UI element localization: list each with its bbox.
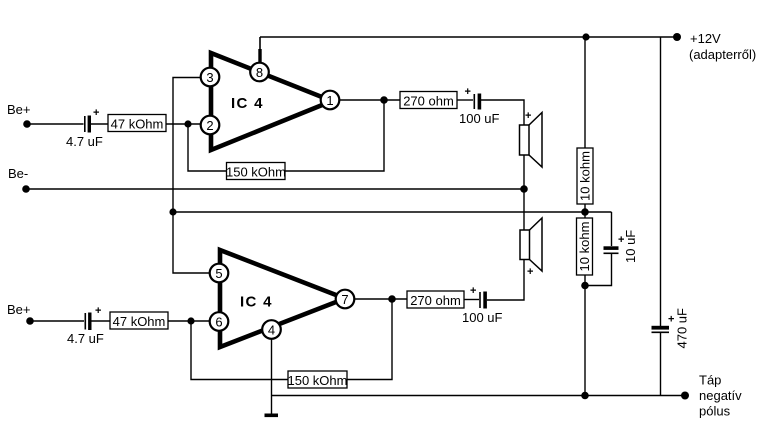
pin 7	[336, 290, 355, 309]
node output 1	[380, 96, 388, 104]
wire C5 branch bottom	[585, 254, 612, 286]
svg-text:4.7 uF: 4.7 uF	[66, 134, 103, 149]
svg-text:470 uF: 470 uF	[675, 308, 690, 349]
wire output 1	[339, 99, 400, 101]
svg-text:Be-: Be-	[8, 166, 28, 181]
node output 2	[388, 295, 396, 303]
svg-text:+: +	[93, 107, 99, 119]
svg-text:+12V: +12V	[690, 31, 721, 46]
svg-text:150 kOhm: 150 kOhm	[288, 373, 348, 388]
svg-text:7: 7	[341, 292, 348, 307]
wire ground bottom rail	[272, 395, 686, 397]
resistor R8 10 kohm	[577, 218, 593, 275]
svg-text:100 uF: 100 uF	[462, 310, 503, 325]
pin 3	[201, 68, 220, 87]
node Be+ terminal 1	[23, 120, 31, 128]
svg-text:270 ohm: 270 ohm	[403, 94, 454, 109]
wire feedback 1 left	[188, 124, 227, 171]
svg-text:1: 1	[326, 93, 333, 108]
wire speaker 1 to Be- node	[523, 155, 525, 189]
svg-text:+: +	[95, 305, 101, 317]
node inverting input 1	[184, 120, 191, 127]
capacitor C5 10uF	[604, 230, 639, 263]
resistor R7 10 kohm	[577, 148, 593, 204]
wire C5 branch top	[611, 212, 613, 246]
capacitor C6 470uF	[652, 308, 690, 349]
svg-text:pólus: pólus	[699, 404, 731, 419]
wire cap to R1	[91, 123, 108, 125]
svg-text:3: 3	[206, 70, 213, 85]
node divider lower junction	[581, 282, 589, 290]
node Be+ terminal 2	[26, 317, 34, 325]
wire feedback 1 right	[285, 100, 384, 171]
svg-text:+: +	[527, 266, 533, 278]
node divider bottom on rail	[581, 392, 589, 400]
svg-text:5: 5	[215, 266, 222, 281]
wire R4 to pin 6	[168, 320, 210, 322]
wire R6 to C4	[464, 299, 479, 301]
svg-text:47 kOhm: 47 kOhm	[113, 314, 166, 329]
svg-text:10 kohm: 10 kohm	[578, 151, 593, 201]
resistor R3 270 ohm	[400, 92, 457, 109]
op-amp U2	[220, 250, 345, 347]
node V+ divider junction	[582, 33, 589, 40]
speaker LS1	[520, 110, 543, 167]
svg-text:270 ohm: 270 ohm	[410, 293, 461, 308]
wire feedback 2 left	[191, 321, 288, 380]
wire output 2	[354, 298, 407, 300]
node divider mid	[581, 208, 589, 216]
svg-text:IC 4: IC 4	[240, 294, 273, 311]
svg-text:(adapterről): (adapterről)	[689, 47, 756, 62]
svg-text:150 kOhm: 150 kOhm	[226, 165, 286, 180]
wire feedback 2 right	[347, 299, 392, 380]
wire C3 to R4	[92, 320, 111, 322]
wire Be- line	[26, 188, 524, 190]
svg-text:negatív: negatív	[699, 388, 742, 403]
wire right rail upper	[660, 37, 662, 326]
pin 1	[321, 91, 340, 110]
node inverting input 2	[187, 317, 194, 324]
wire divider chain	[584, 37, 586, 395]
wire Be- node to speaker 2	[523, 189, 525, 230]
wire input 1	[27, 123, 84, 125]
resistor R1 47 kOhm	[108, 115, 166, 132]
capacitor C4 100uF	[470, 285, 487, 309]
svg-text:+: +	[470, 285, 476, 297]
wire pin 3 to bias rail	[173, 78, 210, 274]
node bias rail tap	[169, 208, 176, 215]
svg-text:+: +	[465, 86, 471, 98]
node Be- terminal	[22, 185, 30, 193]
resistor R6 270 ohm	[407, 291, 464, 308]
svg-text:6: 6	[215, 314, 222, 329]
svg-text:100 uF: 100 uF	[459, 111, 500, 126]
wire C2 to speaker 1	[481, 100, 524, 125]
capacitor C1 4.7uF	[85, 107, 100, 133]
wire R1 to pin 2	[166, 123, 201, 125]
node supply negative terminal	[681, 392, 689, 400]
pin 6	[210, 312, 229, 331]
svg-text:4.7 uF: 4.7 uF	[67, 331, 104, 346]
svg-text:4: 4	[268, 322, 275, 337]
node speakers common	[520, 185, 528, 193]
resistor R2 150 kOhm	[226, 163, 286, 180]
capacitor C2 100uF	[465, 86, 482, 110]
svg-text:8: 8	[256, 65, 263, 80]
speaker LS2	[520, 218, 542, 278]
pin 8	[250, 63, 269, 82]
wire pin 4 to ground	[271, 339, 273, 414]
svg-text:IC 4: IC 4	[231, 95, 264, 112]
svg-text:Be+: Be+	[7, 302, 31, 317]
svg-text:Be+: Be+	[7, 102, 31, 117]
wire right rail lower	[660, 333, 662, 395]
node +12V terminal	[673, 33, 681, 41]
capacitor C3 4.7uF	[85, 305, 101, 330]
svg-text:Táp: Táp	[699, 373, 721, 388]
wire speaker 2 to C4	[487, 260, 524, 301]
svg-text:+: +	[668, 314, 674, 326]
svg-text:10 uF: 10 uF	[623, 230, 638, 263]
ground	[265, 414, 279, 418]
wire R3 to C2	[457, 99, 473, 101]
wire input 2	[30, 320, 84, 322]
svg-text:10 kohm: 10 kohm	[577, 222, 592, 272]
pin 4	[262, 320, 281, 339]
wire V+ top rail	[260, 36, 677, 38]
resistor R4 47 kOhm	[110, 312, 168, 329]
resistor R5 150 kOhm	[288, 371, 348, 388]
svg-text:2: 2	[206, 118, 213, 133]
op-amp U1	[211, 53, 332, 150]
wire bias mid rail	[173, 211, 612, 213]
pin 5	[210, 264, 229, 283]
pin 2	[201, 116, 220, 135]
svg-text:47 kOhm: 47 kOhm	[111, 117, 164, 132]
wire pin8 riser	[259, 37, 261, 62]
svg-text:+: +	[525, 110, 531, 122]
